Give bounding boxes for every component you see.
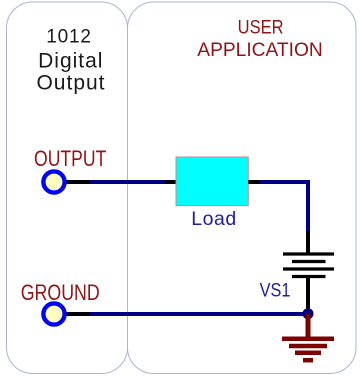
label Load [191,208,236,230]
panel: 1012 device outline [7,2,128,374]
pin lead: OUTPUT terminal [67,180,90,184]
panel: USER APPLICATION outline [128,2,357,374]
terminal GROUND [43,303,64,324]
pin lead: GROUND terminal [67,312,90,316]
svg-text:VS1: VS1 [260,279,291,301]
label: USER APPLICATION [197,16,322,61]
ground symbol [282,314,334,360]
pin lead: VS1 bottom [306,278,310,309]
pin lead: Load right [248,180,259,184]
junction node: ground net [303,308,314,319]
wire: OUTPUT to Load [90,180,167,184]
battery VS1 [283,254,334,277]
load block [176,157,248,206]
label: 1012 Digital Output [36,26,105,94]
svg-text:Load: Load [191,208,236,230]
svg-text:GROUND: GROUND [21,281,100,305]
terminal OUTPUT [43,171,64,192]
pin lead: Load left [166,180,177,184]
svg-text:OUTPUT: OUTPUT [34,147,106,171]
pin lead: VS1 top [306,231,310,253]
label OUTPUT [34,147,106,171]
wire: GROUND to ground node [90,312,309,316]
label GROUND [21,281,100,305]
svg-text:1012: 1012 [46,26,91,47]
svg-text:USER: USER [238,16,284,37]
svg-text:Output: Output [36,72,105,95]
label VS1 [260,279,291,301]
svg-text:APPLICATION: APPLICATION [197,40,322,61]
wire: Load to battery VS1 (corner) [260,182,309,231]
svg-text:Digital: Digital [38,50,103,73]
